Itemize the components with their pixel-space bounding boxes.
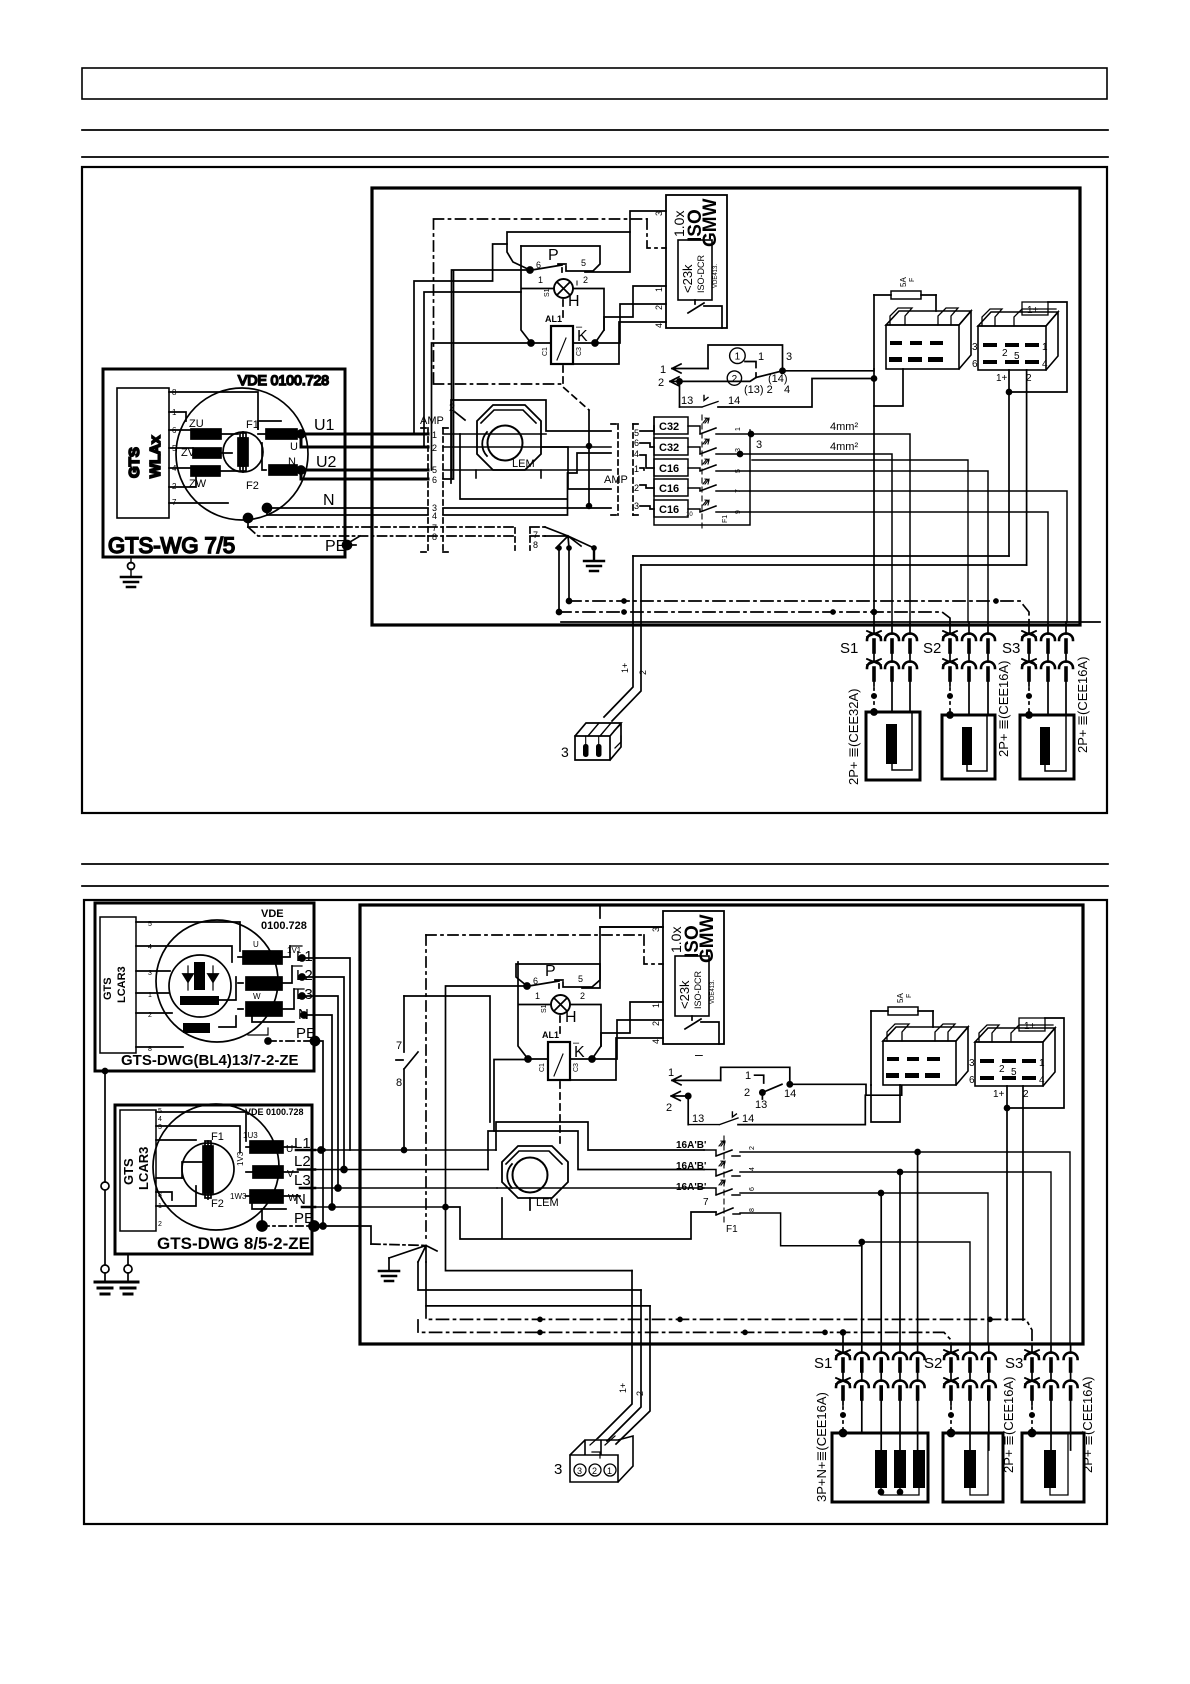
svg-text:1: 1: [535, 991, 540, 1001]
svg-text:L3: L3: [294, 1172, 311, 1189]
svg-text:1: 1: [758, 351, 764, 363]
S1 CEE32 socket box: [866, 712, 920, 780]
rectifier circle: [169, 955, 231, 1017]
svg-text:6: 6: [749, 1187, 756, 1191]
bus junction dots: [622, 599, 626, 603]
svg-text:3: 3: [158, 1124, 162, 1131]
wire row4: [750, 491, 1067, 622]
PE exit from generator box: [345, 536, 360, 545]
K terminals: [528, 340, 534, 346]
svg-text:14: 14: [742, 1113, 754, 1125]
wire AMP pin2 riser: [424, 292, 521, 447]
svg-text:4: 4: [1042, 359, 1048, 370]
svg-text:5: 5: [581, 258, 586, 268]
svg-text:2: 2: [635, 1391, 645, 1396]
svg-text:16A'B': 16A'B': [676, 1140, 706, 1151]
generator internal wires: [169, 392, 258, 503]
svg-text:2: 2: [634, 483, 639, 493]
svg-text:2: 2: [658, 377, 664, 389]
ground symbol left A: [95, 1282, 115, 1294]
arrow 1: [672, 364, 708, 373]
svg-text:6: 6: [533, 976, 538, 986]
service plug 3-pole: [575, 723, 621, 760]
d2 selector corner 1: [755, 1075, 764, 1083]
diagram 2 control cluster (P/H/K/ISO/fuse/terminal blocks): [516, 911, 1064, 1320]
svg-text:F1: F1: [726, 1224, 738, 1235]
svg-text:U2: U2: [316, 454, 337, 471]
separator rule 3: [82, 863, 1108, 865]
svg-text:7: 7: [703, 1197, 709, 1208]
winding ZV: [193, 448, 221, 458]
svg-text:VDE413.: VDE413.: [710, 980, 716, 1004]
d2 S1 CEE16-5 socket box: [832, 1433, 928, 1502]
svg-text:1+: 1+: [993, 1089, 1005, 1100]
svg-text:2P+ ≣(CEE32A): 2P+ ≣(CEE32A): [846, 688, 861, 785]
svg-text:<23k: <23k: [677, 980, 692, 1009]
svg-text:VDE: VDE: [261, 908, 284, 920]
alternator circle G1: [176, 388, 308, 520]
svg-text:LEM: LEM: [512, 458, 535, 470]
svg-text:1: 1: [654, 287, 664, 292]
svg-text:13: 13: [681, 395, 693, 407]
d2 right feeds: [862, 1152, 1070, 1344]
AMP connector X1 dashed shells: [421, 428, 450, 552]
svg-text:VDE 0100.728: VDE 0100.728: [245, 1107, 304, 1117]
svg-text:AL1: AL1: [542, 1030, 559, 1040]
svg-text:S2: S2: [924, 1355, 942, 1372]
svg-text:1W3: 1W3: [230, 1192, 247, 1201]
AMP connector X2 dashed shells: [515, 424, 640, 550]
terminal block X4 3D: [978, 312, 1058, 326]
svg-text:WLAx: WLAx: [147, 435, 164, 478]
PE dash-dot bus line 1: [569, 601, 1029, 622]
svg-text:1: 1: [607, 1466, 612, 1476]
d2 N row to contact row: [446, 1207, 717, 1239]
svg-text:VDE413.: VDE413.: [713, 264, 719, 288]
svg-text:U1: U1: [314, 417, 335, 434]
svg-text:2: 2: [999, 1064, 1005, 1075]
sense wire up from pin6 line: [443, 271, 611, 508]
svg-text:2P+ ≣(CEE16A): 2P+ ≣(CEE16A): [1075, 656, 1090, 753]
breaker trip dashed link: [701, 415, 703, 530]
svg-text:1: 1: [1042, 342, 1048, 353]
svg-text:ISO-DCR: ISO-DCR: [693, 971, 703, 1010]
winding letters U V W: [270, 952, 282, 1016]
X4 pin labels: [972, 342, 1048, 384]
lamp H loop: [521, 246, 604, 343]
winding ZU: [191, 429, 221, 439]
switch P contact: [527, 267, 533, 273]
svg-text:2P+ ≣(CEE16A): 2P+ ≣(CEE16A): [1001, 1376, 1016, 1473]
svg-text:P: P: [545, 963, 556, 980]
svg-text:S1: S1: [544, 288, 551, 297]
svg-text:10: 10: [686, 512, 693, 518]
svg-text:S1: S1: [814, 1355, 832, 1372]
diagram 2 outer border: [84, 900, 1107, 1524]
svg-text:GTS: GTS: [121, 1158, 136, 1185]
svg-text:S3: S3: [1005, 1355, 1023, 1372]
d2 trip dashed link: [723, 1136, 725, 1222]
d2 S2 CEE16 socket box: [943, 1433, 1003, 1502]
relay K coil: [551, 326, 573, 364]
svg-text:V: V: [287, 1169, 294, 1180]
svg-text:S3: S3: [1002, 640, 1020, 657]
svg-text:GTS: GTS: [102, 977, 114, 1000]
svg-text:8: 8: [749, 1208, 756, 1212]
relay K coil (2): [548, 1042, 570, 1080]
svg-text:16A'B': 16A'B': [676, 1182, 706, 1193]
wire to AMP pin6: [301, 470, 428, 479]
svg-text:3: 3: [786, 351, 792, 363]
S1 L wire: [891, 622, 893, 712]
breaker output pin numbers: [735, 427, 742, 514]
d2 sense wire P6 to N row: [446, 986, 525, 1207]
wire cluster to fuse drop: [872, 376, 877, 381]
svg-text:4: 4: [651, 1039, 661, 1044]
svg-text:1: 1: [432, 430, 437, 440]
solid bus line: [561, 621, 1100, 623]
generator GTS-DWG(BL4) box: [95, 903, 314, 1071]
X3 terminal pins: [886, 1057, 940, 1078]
svg-text:2P+ ≣(CEE16A): 2P+ ≣(CEE16A): [1080, 1376, 1095, 1473]
wire row3: [750, 471, 988, 622]
svg-text:6: 6: [634, 438, 639, 448]
winding V (A): [246, 977, 282, 990]
diagram 1 outer border: [82, 167, 1107, 813]
svg-text:F: F: [906, 994, 913, 998]
svg-text:U: U: [272, 952, 279, 963]
svg-text:3: 3: [561, 744, 569, 760]
svg-text:S2: S2: [923, 640, 941, 657]
d2 S3 CEE16 socket box: [1022, 1433, 1084, 1502]
PE fan to ground: [545, 527, 594, 548]
block X3 lower drop (2): [871, 1085, 900, 1122]
svg-text:4: 4: [148, 944, 152, 951]
d2 cabinet ground: [379, 1271, 399, 1281]
node N junction: [263, 504, 272, 513]
X2 pin7/8 dash-dot stubs: [428, 527, 545, 536]
diagram 2 control cabinet box: [360, 905, 1083, 1344]
switch P contact (2): [524, 983, 530, 989]
X4 loop wire: [1009, 302, 1067, 392]
diagram 1 control cabinet box: [372, 188, 1080, 625]
breaker bank enclosure: [654, 417, 750, 525]
strip GTS LCAR3 (lower): [120, 1110, 156, 1231]
d2 service plug 3-pole: [570, 1436, 633, 1482]
wire N2 to AMP pin4: [267, 508, 428, 515]
svg-text:1: 1: [735, 427, 742, 431]
d2 selector blade: [760, 1090, 765, 1095]
X4 loop wire (2): [1007, 1018, 1064, 1108]
svg-text:8: 8: [158, 1192, 162, 1199]
K power contact in feed line: [588, 411, 590, 506]
svg-text:3P+N+≣(CEE16A): 3P+N+≣(CEE16A): [814, 1392, 829, 1502]
svg-text:2: 2: [638, 670, 648, 675]
alternator B circle: [153, 1104, 279, 1230]
terminal block X3 3D: [886, 311, 971, 325]
svg-text:5: 5: [1011, 1067, 1017, 1078]
ground symbol below generator: [130, 557, 132, 577]
svg-text:–: –: [695, 1046, 703, 1062]
svg-text:6: 6: [432, 475, 437, 485]
K actuator dashed: [563, 366, 589, 410]
d2 selector output to X3: [790, 1084, 902, 1095]
arrow 2: [670, 377, 756, 386]
svg-text:U: U: [286, 1144, 293, 1155]
svg-text:AMP: AMP: [604, 474, 628, 486]
svg-text:V: V: [270, 979, 277, 990]
svg-text:C16: C16: [659, 483, 679, 495]
svg-text:F2: F2: [246, 480, 259, 492]
winding ZW: [191, 466, 220, 476]
LEM hall circle: [488, 426, 523, 461]
svg-text:GTS-DWG 8/5-2-ZE: GTS-DWG 8/5-2-ZE: [157, 1234, 310, 1253]
B output junction dots: [318, 1147, 324, 1153]
A internal wires: [136, 922, 240, 1047]
ISO-DCR inner box: [678, 240, 712, 300]
LEM toroid octagon: [477, 405, 541, 470]
ISO pin2 wire and internal contact: [694, 300, 696, 305]
exciter circle B: [182, 1143, 234, 1195]
svg-text:5: 5: [432, 465, 437, 475]
svg-text:3: 3: [756, 439, 762, 451]
winding 1W3: [250, 1190, 283, 1203]
wire 4mm2 row1: [749, 432, 754, 437]
svg-text:5: 5: [634, 428, 639, 438]
ISO monitor GMW box (2): [663, 911, 724, 1044]
svg-text:(13) 2: (13) 2: [744, 384, 773, 396]
fuse 5A F (2): [888, 1007, 918, 1015]
LEM compensation loop inner: [443, 434, 611, 515]
svg-text:1V3: 1V3: [236, 1151, 245, 1166]
svg-text:C16: C16: [659, 463, 679, 475]
sense wire from P6 to left: [452, 270, 528, 479]
breaker C32 row2: [654, 438, 688, 455]
svg-text:2: 2: [732, 374, 738, 385]
svg-text:5: 5: [1014, 351, 1020, 362]
wire U1 thick to AMP pin1: [301, 433, 428, 436]
svg-text:4: 4: [158, 1116, 162, 1123]
rectifier diodes: [183, 974, 218, 982]
svg-text:<23k: <23k: [680, 264, 695, 293]
terminal strip GTS WLAx: [117, 388, 169, 518]
sense wire from K left to AMP pin5 line: [432, 343, 529, 470]
wire row5: [750, 512, 1048, 622]
left earth wires of diagram 2: [105, 1071, 128, 1264]
svg-text:8: 8: [396, 1077, 402, 1089]
svg-text:L2: L2: [294, 1153, 311, 1170]
svg-text:3: 3: [969, 1058, 975, 1069]
fuse 5A F: [891, 291, 921, 299]
ISO pin1 wire: [604, 286, 666, 330]
strip GTS LCAR3 (upper): [100, 917, 136, 1053]
svg-text:13: 13: [692, 1113, 704, 1125]
svg-text:4: 4: [654, 323, 664, 328]
svg-text:5: 5: [735, 469, 742, 473]
d2 LEM toroid: [502, 1146, 568, 1198]
svg-text:13: 13: [755, 1099, 767, 1111]
winding W (A): [246, 1002, 282, 1016]
svg-text:U: U: [253, 940, 259, 949]
node U1 junction: [297, 430, 305, 438]
svg-text:C1: C1: [539, 1063, 546, 1072]
svg-text:AL1: AL1: [545, 314, 562, 324]
generator GTS-DWG 8/5 box: [115, 1105, 312, 1254]
svg-text:8: 8: [533, 540, 538, 550]
S1 pilot wire: [873, 406, 875, 686]
wire U thick to AMP pin2: [301, 434, 428, 447]
svg-text:2: 2: [1002, 348, 1008, 359]
wire N to AMP pin3: [267, 507, 428, 509]
svg-text:2P+ ≣(CEE16A): 2P+ ≣(CEE16A): [996, 660, 1011, 757]
WLAx pin numbers: [172, 388, 177, 507]
svg-text:5A: 5A: [896, 993, 905, 1003]
svg-text:7: 7: [735, 489, 742, 493]
svg-text:4mm²: 4mm²: [830, 441, 858, 453]
PE dash-dot wire to AMP pins 7,8: [248, 526, 428, 528]
svg-text:1+: 1+: [618, 1383, 628, 1393]
svg-text:1+: 1+: [1024, 1021, 1036, 1032]
winding 1U3: [250, 1141, 283, 1153]
svg-text:ISO-DCR: ISO-DCR: [696, 255, 706, 294]
d2 dc feed wires to plug: [418, 1207, 650, 1306]
svg-text:1+: 1+: [620, 663, 630, 673]
svg-text:5: 5: [578, 974, 583, 984]
svg-text:GTS-DWG(BL4)13/7-2-ZE: GTS-DWG(BL4)13/7-2-ZE: [121, 1052, 299, 1069]
horizontal rule 2: [82, 156, 1108, 158]
LCAR3 lower pin numbers: [158, 1108, 162, 1228]
svg-text:1: 1: [651, 1003, 661, 1008]
svg-text:P: P: [548, 247, 559, 264]
svg-text:C3: C3: [576, 347, 583, 356]
d2 selector loop: [721, 1067, 790, 1084]
lamp H (2): [551, 995, 570, 1014]
svg-text:4: 4: [784, 384, 790, 396]
svg-text:14: 14: [728, 395, 740, 407]
LEM through wires: [443, 434, 611, 447]
ISO pin2 wire and internal contact (2): [691, 1016, 693, 1021]
AMP X1 pin numbers: [432, 430, 437, 542]
svg-text:F1: F1: [246, 419, 259, 431]
svg-text:F1: F1: [211, 1131, 224, 1143]
svg-text:N: N: [288, 456, 296, 468]
svg-text:7: 7: [533, 530, 538, 540]
selector loop: [708, 345, 783, 371]
battery feed wires 1+/2: [633, 556, 1027, 565]
svg-text:LCAR3: LCAR3: [136, 1147, 151, 1190]
X4 terminal pins: [980, 1059, 1036, 1080]
svg-text:GTS-WG 7/5: GTS-WG 7/5: [108, 533, 235, 558]
S1 N wire: [909, 622, 911, 712]
d2 dash-dot pilot rectangle: [426, 935, 663, 964]
X4 terminal pins: [983, 343, 1039, 364]
svg-text:4mm²: 4mm²: [830, 421, 858, 433]
lamp H loop (2): [518, 962, 601, 1059]
B internal wires: [156, 1112, 246, 1206]
svg-text:1: 1: [634, 464, 639, 474]
d2 dash-dot bus 1: [426, 1306, 1032, 1344]
B PE node: [257, 1221, 267, 1231]
svg-text:2: 2: [583, 275, 588, 285]
generator GTS-WG 7/5 box: [103, 369, 345, 557]
svg-text:14: 14: [784, 1088, 796, 1100]
svg-text:0100.728: 0100.728: [261, 920, 307, 932]
svg-text:W: W: [253, 992, 261, 1001]
svg-text:4: 4: [432, 511, 437, 521]
selector blade: [756, 371, 783, 378]
svg-text:7: 7: [396, 1040, 402, 1052]
svg-text:VDE 0100.728: VDE 0100.728: [238, 372, 329, 388]
svg-text:C1: C1: [542, 347, 549, 356]
d2 pin7 wire to LEM loop: [404, 996, 490, 1122]
svg-text:U: U: [290, 441, 298, 453]
breaker C16 row4: [654, 479, 688, 496]
winding 1V3: [253, 1166, 283, 1178]
breaker C16 row5: [654, 500, 688, 517]
svg-text:1+: 1+: [1027, 305, 1039, 316]
svg-text:4: 4: [749, 1167, 756, 1171]
d2 breaker output pin numbers: [749, 1146, 756, 1212]
svg-text:C3: C3: [573, 1063, 580, 1072]
title block frame: [82, 68, 1107, 99]
svg-text:3: 3: [972, 342, 978, 353]
fuse bar F1/F2: [203, 1146, 213, 1193]
selector contact cluster 1/2/13/14: [730, 348, 746, 364]
svg-text:6: 6: [972, 359, 978, 370]
svg-text:1: 1: [538, 275, 543, 285]
svg-text:6: 6: [536, 260, 541, 270]
S2 CEE16 socket box: [942, 715, 995, 779]
AMP X2 pin numbers: [533, 428, 639, 550]
K actuator dashed (2): [559, 1082, 561, 1146]
svg-text:H: H: [565, 1009, 577, 1026]
svg-text:2: 2: [592, 1466, 597, 1476]
svg-text:N: N: [323, 492, 335, 509]
svg-text:S1: S1: [541, 1004, 548, 1013]
switch P loop (2): [516, 964, 600, 987]
svg-text:1: 1: [668, 1067, 674, 1079]
svg-text:GTS: GTS: [126, 447, 143, 478]
d2 selector arrow 1: [672, 1076, 721, 1085]
svg-text:8: 8: [432, 532, 437, 542]
d2 K left wire: [494, 1060, 525, 1132]
ISO pin1 wire (2): [601, 1002, 663, 1046]
svg-text:16A'B': 16A'B': [676, 1161, 706, 1172]
breaker input feeds from AMP2: [640, 426, 654, 509]
ISO pin3 wire: [585, 211, 666, 272]
terminal block X3 3D (2): [883, 1027, 968, 1041]
svg-text:1: 1: [660, 364, 666, 376]
A output wires: [290, 946, 304, 989]
d2 LEM loops: [496, 1122, 704, 1150]
d2 selector arrow 2: [671, 1092, 688, 1101]
svg-text:2: 2: [654, 305, 664, 310]
wire 4mm2 row2: [738, 452, 743, 457]
svg-text:F1: F1: [722, 515, 729, 523]
svg-text:2: 2: [651, 1021, 661, 1026]
svg-text:ZW: ZW: [189, 478, 207, 490]
node U2 junction: [297, 466, 305, 474]
svg-text:LCAR3: LCAR3: [116, 966, 128, 1003]
svg-text:F: F: [909, 278, 916, 282]
phase wires to LEM: [296, 1150, 497, 1207]
pin2 wire jog: [541, 447, 611, 489]
svg-text:W: W: [272, 1005, 282, 1016]
ground symbol in cabinet: [584, 548, 604, 571]
LCAR3 upper pin numbers: [148, 921, 152, 1053]
selector output to fuse drop: [783, 370, 875, 372]
LEM compensation loop outer: [451, 400, 611, 483]
